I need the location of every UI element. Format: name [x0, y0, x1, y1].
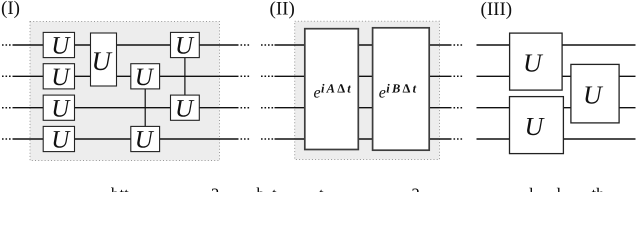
gate U col1 q2 — [43, 64, 74, 91]
vertical coupler col3 q2-q4 — [144, 88, 146, 127]
svg-text:iBΔt: iBΔt — [386, 81, 418, 95]
svg-text:(I): (I) — [1, 0, 20, 19]
svg-text:U: U — [583, 81, 604, 110]
wire q2 panel II dotted lead left — [261, 75, 275, 77]
svg-text:2: 2 — [211, 185, 219, 193]
svg-text:U: U — [175, 95, 195, 122]
dotted shaded frame panel I — [30, 22, 220, 161]
wire q1 dotted lead left — [2, 44, 13, 46]
wire q4 panel II dotted lead right — [454, 138, 465, 140]
wire q1 panel II — [275, 44, 452, 46]
gate exp(iA dt) — [305, 29, 359, 150]
svg-text:U: U — [92, 46, 113, 76]
svg-text:b: b — [257, 185, 265, 193]
wire q4 panel II — [275, 138, 452, 140]
svg-text:l: l — [557, 185, 562, 193]
wire q3 panel II dotted lead right — [454, 107, 465, 109]
svg-text:U: U — [51, 95, 71, 122]
wire q2 panel III — [477, 75, 636, 77]
svg-text:2: 2 — [412, 185, 420, 193]
gate U col4 q1 — [171, 32, 200, 59]
wire q3 panel III — [477, 107, 636, 109]
gate U col1 q1 — [43, 32, 74, 59]
svg-text:U: U — [525, 112, 546, 141]
gate U col3 q2 — [131, 64, 160, 91]
gate U col4 q3 — [171, 95, 200, 122]
wire q4 dotted lead left — [2, 138, 13, 140]
gate U panel III q3q4 — [510, 97, 564, 154]
svg-text:t: t — [319, 185, 324, 193]
wire q3 dotted lead right — [241, 107, 252, 109]
wire q1 panel III — [477, 44, 636, 46]
wire q1 panel II dotted lead left — [261, 44, 275, 46]
svg-text:U: U — [135, 127, 155, 154]
svg-text:U: U — [135, 64, 155, 91]
svg-text:e: e — [314, 85, 321, 102]
wire q4 dotted lead right — [241, 138, 252, 140]
svg-text:U: U — [175, 33, 195, 60]
svg-text:th: th — [592, 185, 606, 193]
wire q2 dotted lead right — [241, 75, 252, 77]
svg-text:iAΔt: iAΔt — [321, 81, 353, 95]
caption fragment clipped at bottom — [111, 185, 605, 204]
wire q4 panel III — [477, 138, 636, 140]
gate U col1 q3 — [43, 95, 74, 122]
svg-text:(III): (III) — [481, 0, 513, 20]
wire q4 — [13, 138, 239, 140]
wire q3 dotted lead left — [2, 107, 13, 109]
svg-text:U: U — [51, 33, 71, 60]
gate exp(iB dt) — [373, 28, 430, 150]
svg-text:l: l — [529, 185, 534, 193]
svg-text:(II): (II) — [270, 0, 295, 19]
wire q1 panel II dotted lead right — [454, 44, 465, 46]
wire q4 panel II dotted lead left — [261, 138, 275, 140]
svg-text:U: U — [523, 49, 544, 78]
gate U panel III q1q2 — [510, 33, 562, 90]
wire q3 — [13, 107, 239, 109]
gate U panel III q2q3 — [571, 64, 619, 123]
svg-text:b: b — [111, 185, 119, 193]
svg-text:e: e — [379, 85, 386, 102]
wire q1 — [13, 44, 239, 46]
dotted shaded frame panel II — [295, 21, 440, 159]
gate U col3 q4 — [131, 126, 160, 153]
wire q2 dotted lead left — [2, 75, 13, 77]
wire q3 panel II — [275, 107, 452, 109]
wire q1 dotted lead right — [241, 44, 252, 46]
svg-text:U: U — [51, 127, 71, 154]
wire q2 panel II — [275, 75, 452, 77]
svg-text:U: U — [51, 64, 71, 91]
gate U col1 q4 — [43, 126, 74, 153]
gate U col2 q1q2 — [91, 33, 117, 86]
wire q2 panel II dotted lead right — [454, 75, 465, 77]
wire q2 — [13, 75, 239, 77]
vertical coupler col4 q1-q3 — [184, 57, 186, 96]
svg-text:tt: tt — [120, 185, 130, 193]
wire q3 panel II dotted lead left — [261, 107, 275, 109]
svg-text:t: t — [272, 185, 277, 193]
